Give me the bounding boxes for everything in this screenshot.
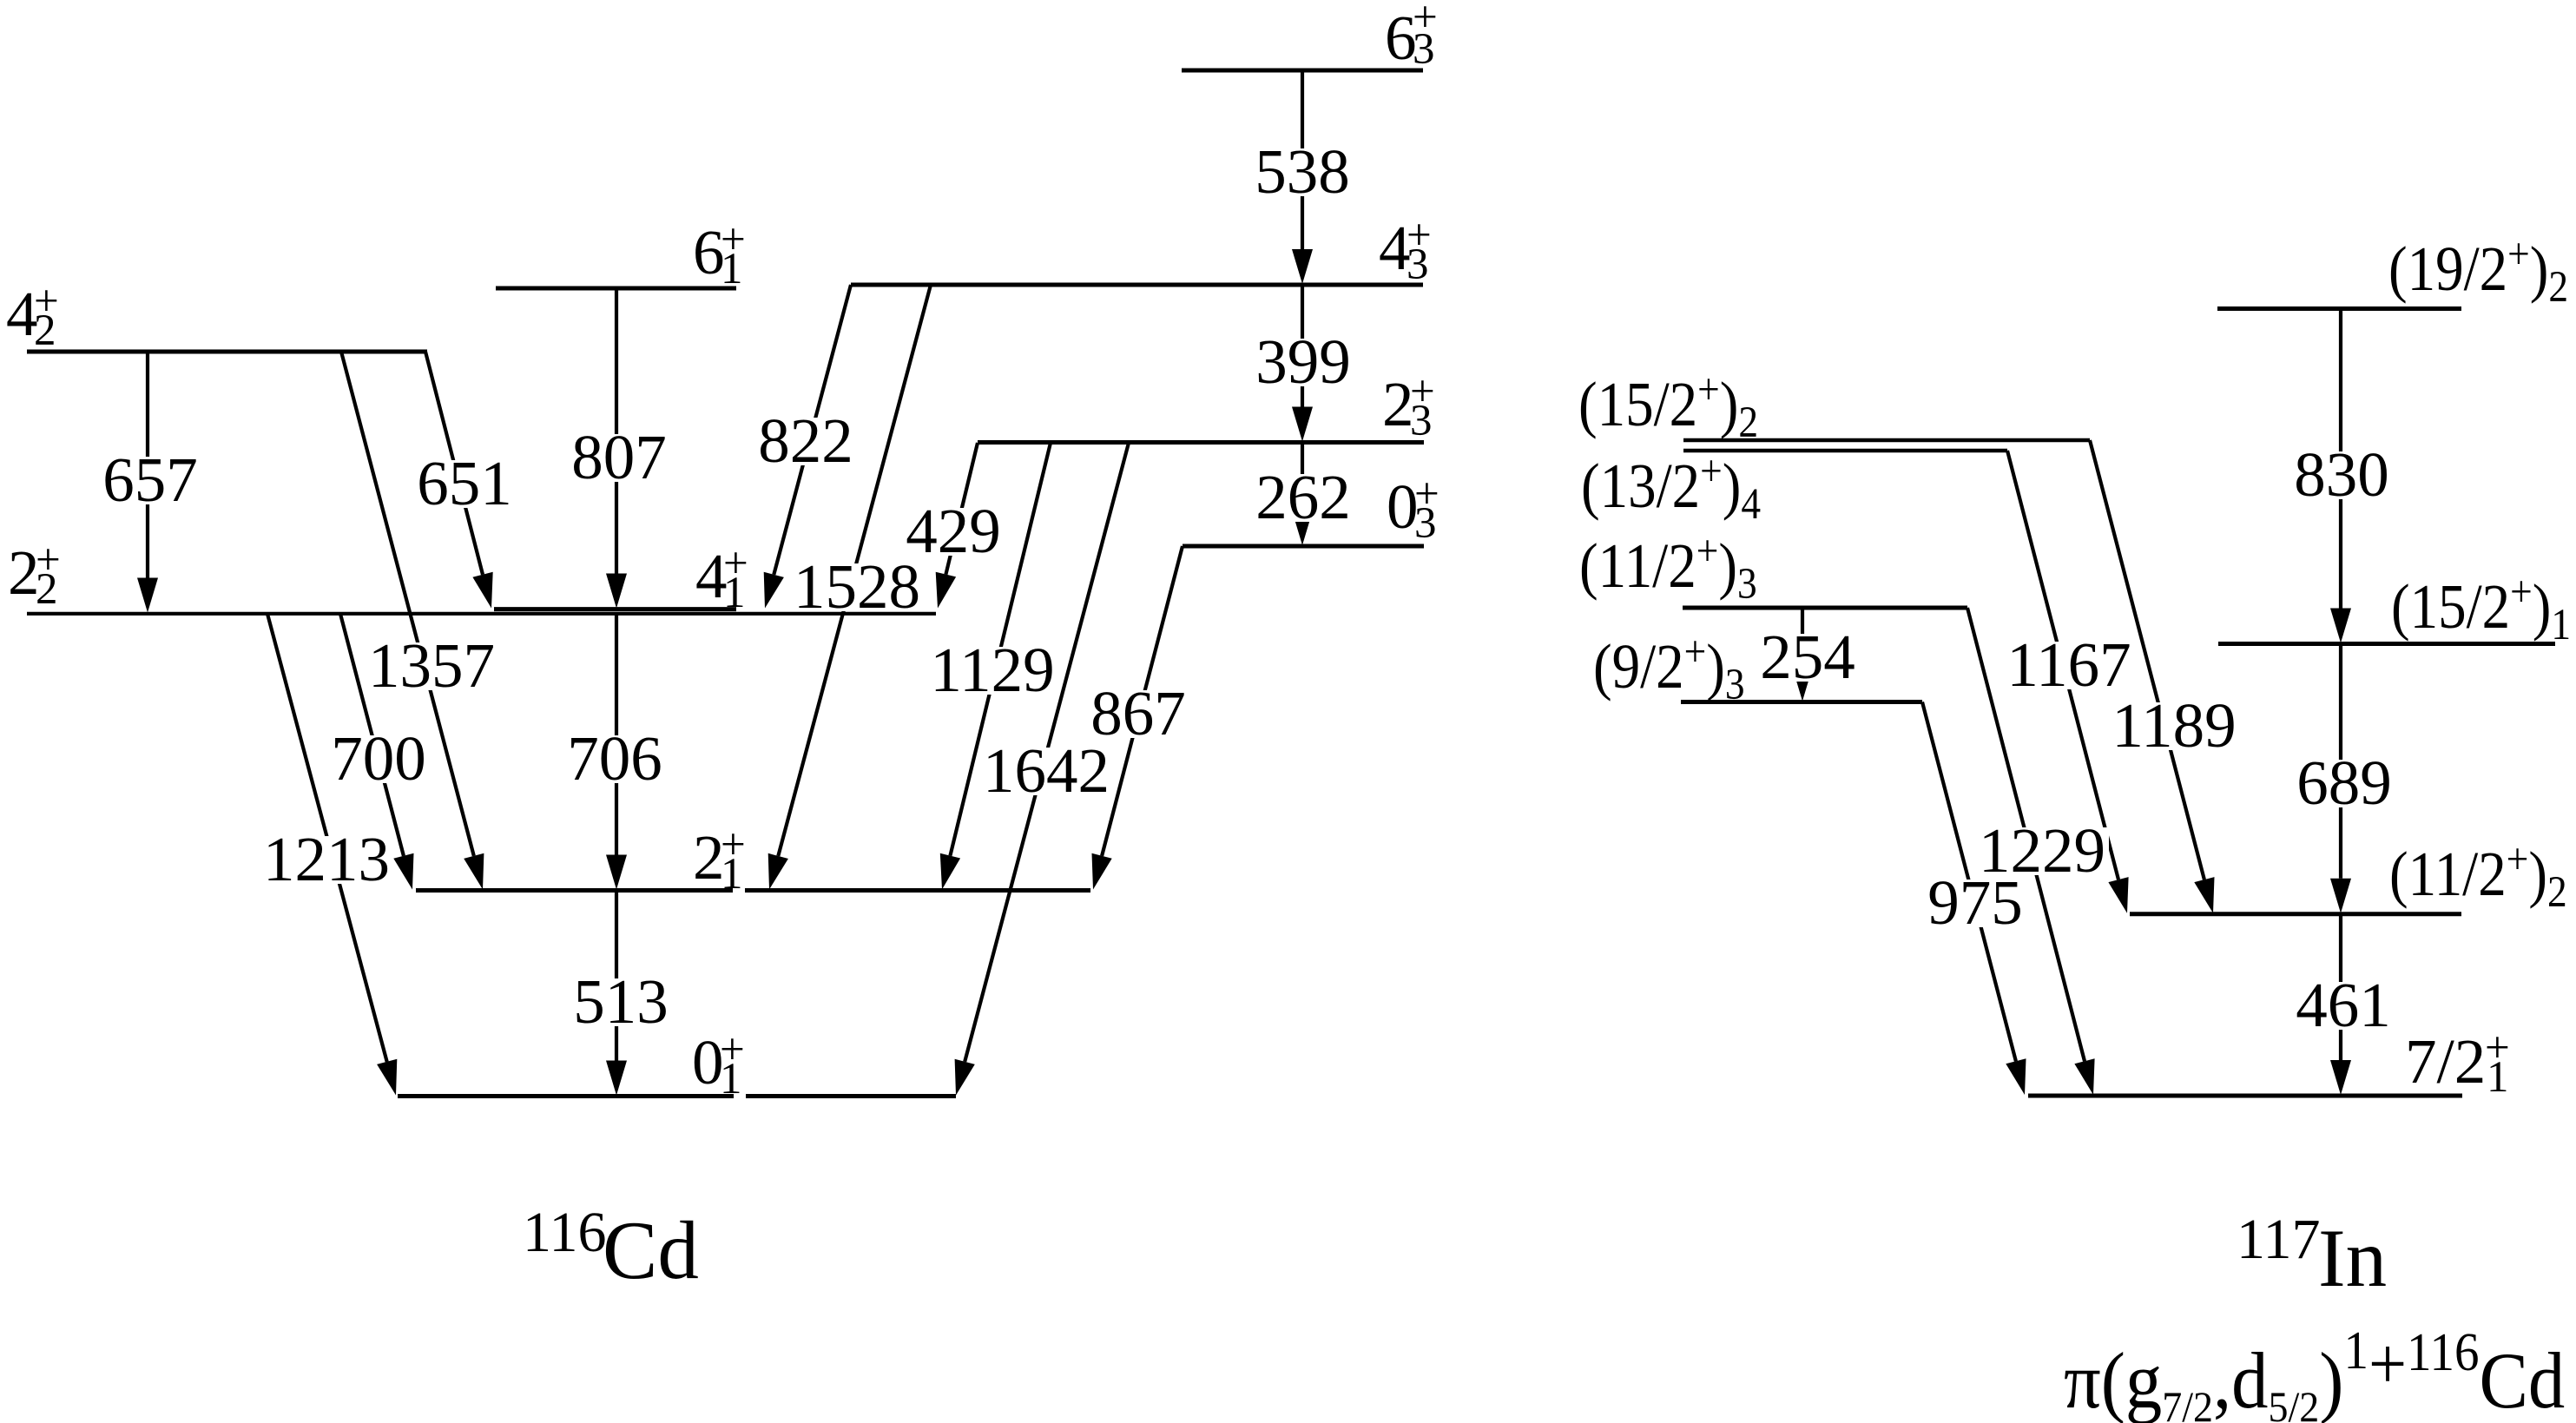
svg-text:651: 651 (417, 448, 512, 518)
svg-text:(9/2+)3: (9/2+)3 (1593, 628, 1745, 709)
svg-text:461: 461 (2296, 970, 2391, 1040)
svg-text:+: + (721, 820, 746, 869)
svg-text:(11/2+)2: (11/2+)2 (2389, 835, 2567, 917)
svg-text:(19/2+)2: (19/2+)2 (2388, 230, 2568, 312)
svg-text:1129: 1129 (930, 635, 1054, 705)
svg-text:Cd: Cd (603, 1204, 699, 1296)
svg-text:689: 689 (2296, 748, 2392, 818)
svg-text:867: 867 (1090, 678, 1186, 748)
svg-text:1357: 1357 (368, 630, 495, 701)
svg-text:822: 822 (758, 405, 853, 476)
svg-text:(11/2+)3: (11/2+)3 (1579, 527, 1757, 609)
svg-text:975: 975 (1927, 867, 2023, 938)
svg-text:706: 706 (567, 723, 662, 794)
svg-text:+: + (34, 277, 59, 326)
svg-text:399: 399 (1255, 326, 1351, 397)
svg-text:1528: 1528 (794, 551, 920, 622)
svg-text:(15/2+)2: (15/2+)2 (1578, 366, 1758, 447)
svg-text:+: + (1413, 0, 1438, 42)
svg-text:116: 116 (523, 1201, 607, 1264)
svg-text:7/2: 7/2 (2405, 1026, 2486, 1097)
svg-text:+: + (723, 539, 748, 588)
svg-text:1213: 1213 (263, 824, 390, 894)
svg-text:830: 830 (2294, 439, 2389, 510)
svg-text:700: 700 (331, 723, 426, 794)
svg-text:117: 117 (2237, 1208, 2321, 1271)
svg-text:1167: 1167 (2006, 629, 2131, 700)
svg-text:+: + (720, 1025, 745, 1074)
svg-text:(15/2+)1: (15/2+)1 (2391, 568, 2571, 649)
svg-text:+: + (1407, 211, 1432, 260)
svg-text:513: 513 (573, 966, 669, 1037)
svg-text:254: 254 (1760, 622, 1855, 692)
svg-text:+: + (1414, 470, 1440, 518)
svg-text:+: + (721, 215, 746, 264)
svg-text:+: + (36, 536, 61, 584)
svg-text:807: 807 (571, 422, 667, 492)
svg-text:In: In (2318, 1212, 2387, 1304)
svg-text:1189: 1189 (2112, 690, 2236, 761)
svg-text:+: + (2485, 1024, 2510, 1072)
svg-text:657: 657 (102, 445, 198, 515)
svg-text:429: 429 (906, 496, 1001, 566)
svg-text:538: 538 (1255, 136, 1350, 207)
svg-text:262: 262 (1255, 462, 1351, 532)
svg-text:+: + (1410, 367, 1435, 416)
svg-text:(13/2+)4: (13/2+)4 (1581, 447, 1761, 529)
